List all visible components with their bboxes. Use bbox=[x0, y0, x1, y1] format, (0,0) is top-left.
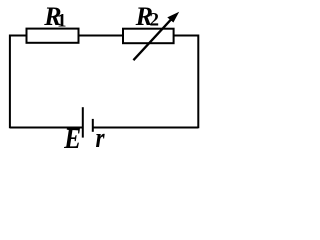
wire: left side bbox=[9, 35, 11, 129]
rheostat arrow shaft bbox=[133, 19, 171, 60]
wire: bottom-right from battery short plate to right corner bbox=[93, 127, 199, 129]
svg-text:R2: R2 bbox=[135, 2, 159, 31]
svg-text:r: r bbox=[96, 122, 106, 154]
resistor R1 bbox=[27, 29, 79, 43]
wire: top-left corner to R1 bbox=[10, 35, 27, 37]
battery short plate (negative) bbox=[92, 119, 94, 132]
wire: right side bbox=[197, 35, 199, 129]
battery long plate (positive) bbox=[82, 107, 84, 137]
wire: bottom-left from left corner to battery long plate bbox=[10, 127, 83, 129]
resistor R2 (rheostat body) bbox=[123, 29, 174, 44]
rheostat arrow head bbox=[167, 12, 179, 23]
svg-text:E: E bbox=[63, 122, 81, 154]
wire: R2 to top-right corner bbox=[174, 35, 199, 37]
svg-text:R1: R1 bbox=[43, 2, 66, 32]
wire: R1 to R2 bbox=[79, 35, 124, 37]
